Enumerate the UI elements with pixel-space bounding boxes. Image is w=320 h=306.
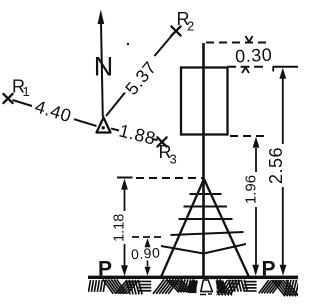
svg-text:1.96: 1.96 [242, 175, 259, 204]
svg-text:1: 1 [23, 84, 31, 99]
svg-text:0.30: 0.30 [235, 45, 273, 67]
svg-text:1.18: 1.18 [111, 214, 127, 242]
svg-text:P: P [98, 258, 113, 281]
svg-text:N: N [94, 52, 114, 82]
svg-text:3: 3 [170, 152, 178, 167]
svg-text:2.56: 2.56 [266, 147, 286, 184]
svg-text:2: 2 [187, 19, 195, 34]
svg-text:P: P [262, 258, 277, 281]
svg-text:0.90: 0.90 [131, 244, 161, 262]
